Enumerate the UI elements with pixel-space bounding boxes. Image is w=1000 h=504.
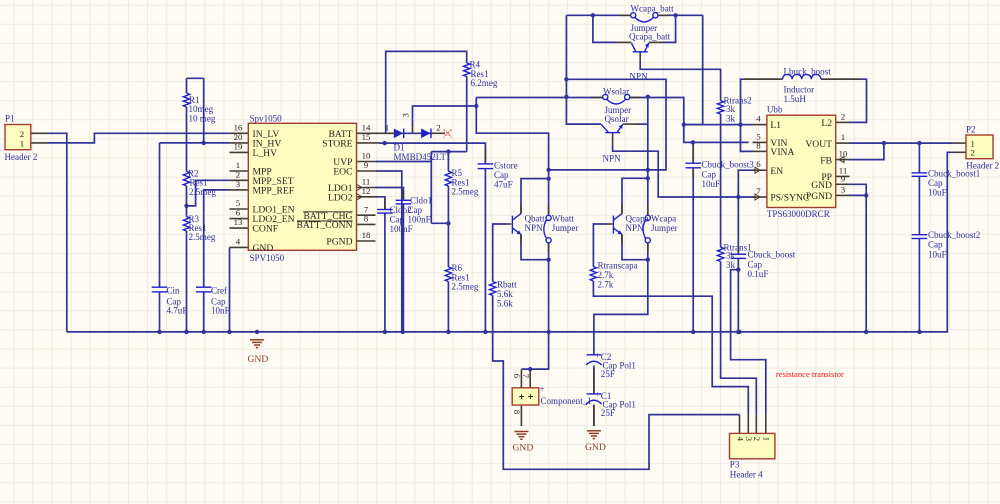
svg-text:2.7k: 2.7k [598, 279, 614, 289]
svg-text:L_HV: L_HV [253, 148, 278, 159]
capacitor Cbuck_boost [731, 253, 747, 255]
wire inductor to L2 [821, 79, 867, 122]
svg-text:2.7k: 2.7k [598, 270, 614, 280]
wire R4 bottom leg [466, 77, 468, 152]
wire node R5 bottom [431, 222, 448, 224]
pin stubs Wbatt jumper [548, 206, 550, 215]
svg-text:Cap: Cap [928, 240, 943, 250]
wire D1 internal [394, 132, 432, 134]
svg-text:10: 10 [362, 151, 371, 161]
capacitor Cbuck_boost1 [912, 172, 928, 174]
wire P1 pin1 jog up to IN_LV [48, 133, 230, 143]
svg-text:100nF: 100nF [390, 224, 413, 234]
svg-text:10 meg: 10 meg [189, 113, 216, 123]
svg-text:2.5meg: 2.5meg [452, 187, 479, 197]
transistor Q2 Qcapa NPN [612, 216, 614, 234]
resistor R1 [183, 93, 189, 107]
svg-text:Qsolar: Qsolar [605, 114, 629, 124]
capacitor C2 Cap Pol1 [587, 354, 602, 356]
pin stub STORE [357, 142, 380, 144]
wire Wsolar row right to VIN drop [630, 98, 749, 143]
ground GND main rail [250, 340, 264, 348]
svg-text:+: + [540, 384, 545, 394]
svg-text:GND: GND [248, 354, 269, 365]
input glyph EN [755, 167, 760, 173]
svg-text:1: 1 [20, 139, 24, 149]
svg-text:8: 8 [512, 410, 522, 415]
svg-text:10nF: 10nF [211, 306, 230, 316]
svg-text:2: 2 [841, 111, 845, 121]
wire Cstore to rail [484, 169, 486, 332]
svg-text:Component_1: Component_1 [541, 396, 592, 406]
svg-text:Ubb: Ubb [767, 105, 783, 115]
resistor R2 [183, 171, 189, 186]
svg-text:Lbuck_boost: Lbuck_boost [784, 67, 832, 77]
svg-text:5: 5 [236, 198, 241, 208]
pin stub BATT with D1 anode lead [357, 132, 395, 134]
wire R6 legs to rail [447, 223, 449, 267]
svg-text:MPP_REF: MPP_REF [253, 186, 295, 197]
connector P2 [966, 135, 993, 159]
svg-text:2: 2 [752, 437, 762, 441]
svg-text:20: 20 [234, 132, 243, 142]
svg-text:Cbuck_boost3: Cbuck_boost3 [702, 160, 755, 170]
transistor Q4 Qcapa_batt NPN [633, 51, 648, 53]
svg-text:8: 8 [756, 140, 761, 150]
svg-text:Wcapa: Wcapa [651, 214, 676, 224]
wire Cbuck_boost1/2 column [918, 143, 920, 173]
wire L1 to inductor loop [741, 79, 783, 124]
wire R1 right leg to IN_HV [203, 78, 205, 143]
svg-text:Cap: Cap [494, 170, 509, 180]
svg-text:6: 6 [512, 374, 522, 379]
wire Cbuck_boost3 column [692, 142, 694, 163]
wire GND rail (bottom bus) [67, 152, 953, 332]
wire Wbatt bottom to emitter dot to rail [548, 243, 550, 260]
jumper Wsolar [603, 94, 608, 99]
svg-text:MMBD452LT1: MMBD452LT1 [394, 152, 451, 162]
resistor Rtranscapa [590, 267, 596, 281]
svg-text:L1: L1 [770, 120, 781, 131]
wire STORE row to Cstore [379, 143, 485, 164]
svg-text:10uF: 10uF [928, 188, 947, 198]
svg-text:NPN: NPN [630, 72, 649, 82]
pin stub Qcapa_batt base [639, 52, 641, 62]
svg-text:GND: GND [513, 443, 534, 454]
svg-text:4: 4 [236, 237, 241, 247]
svg-text:Jumper: Jumper [552, 223, 579, 233]
svg-text:6: 6 [756, 159, 761, 169]
svg-text:FB: FB [820, 155, 832, 166]
wire UVP to riser column [376, 161, 432, 163]
svg-text:Header 2: Header 2 [5, 152, 38, 162]
wire Qcapa collector loop [622, 178, 648, 213]
svg-text:9: 9 [841, 173, 846, 183]
svg-text:Wsolar: Wsolar [603, 87, 629, 97]
wire GND/PGND tie to rail [850, 184, 867, 332]
svg-text:VINA: VINA [770, 147, 794, 158]
svg-text:2: 2 [20, 129, 24, 139]
pin stub Qsolar emitter [623, 123, 638, 125]
svg-text:PGND: PGND [806, 191, 832, 202]
wire Rtranscapa to P3 pin3 staircase [593, 281, 748, 415]
svg-text:EOC: EOC [333, 167, 352, 178]
svg-text:Header 4: Header 4 [730, 469, 763, 479]
resistor Rbatt [490, 282, 496, 296]
lead Cldo1 top [402, 191, 404, 201]
wire Qbatt collector loop [521, 179, 549, 214]
svg-text:10uF: 10uF [702, 179, 721, 189]
svg-text:Qcapa_batt: Qcapa_batt [629, 32, 671, 42]
svg-text:6.2meg: 6.2meg [471, 78, 498, 88]
svg-text:0.1uF: 0.1uF [748, 269, 769, 279]
wire Qcapa_batt collector loop [593, 15, 617, 42]
wire LDO2 to Cldo2 to rail [376, 197, 385, 210]
wire FB to VOUT [850, 143, 884, 160]
transistor Q3 Qsolar NPN [605, 132, 620, 134]
svg-text:100nF: 100nF [408, 215, 431, 225]
svg-text:GND: GND [811, 180, 832, 191]
wire EN branch [738, 170, 754, 197]
wire D1 pin3 riser [413, 106, 477, 126]
svg-text:6: 6 [236, 208, 241, 218]
wire Rtrans2 to Rtrans1 column [720, 114, 722, 247]
resistor R3 [183, 217, 189, 231]
svg-text:Cbuck_boost: Cbuck_boost [748, 250, 796, 260]
svg-text:5.6k: 5.6k [497, 298, 513, 308]
wire Cin column (IN_HV to Cin to rail) [159, 143, 161, 287]
wire Qbatt emitter loop [521, 234, 549, 259]
svg-text:4: 4 [735, 437, 745, 442]
connector P3 [730, 433, 775, 458]
svg-text:Jumper: Jumper [631, 23, 658, 33]
wire C2 to C1 link [593, 366, 595, 394]
wire Rtrans1 to P3 pin2 staircase [721, 262, 757, 415]
svg-text:CONF: CONF [253, 224, 279, 235]
input glyph PS/SYNC [755, 194, 760, 200]
svg-text:+: + [595, 389, 600, 399]
capacitor Cin [152, 286, 168, 288]
resistor R5 [445, 171, 451, 186]
wire C1 to GND symbol [593, 405, 595, 426]
svg-text:Wbatt: Wbatt [552, 214, 575, 224]
lead Cbuck_boost3 [692, 145, 694, 163]
component Component_1 body [512, 388, 539, 405]
wire Wcapa column [647, 97, 649, 215]
jumper Wcapa_batt [631, 13, 636, 18]
svg-text:10uF: 10uF [928, 249, 947, 259]
svg-text:GND: GND [253, 243, 274, 254]
pin stub Qcapa_batt emitter [649, 41, 663, 43]
lead Cbuck_boost top [737, 246, 739, 254]
wire R1-R2-R3 column [186, 78, 188, 93]
svg-text:4: 4 [756, 114, 761, 124]
svg-text:Wcapa_batt: Wcapa_batt [631, 4, 675, 14]
svg-text:Spv1050: Spv1050 [250, 114, 283, 124]
svg-text:7: 7 [756, 186, 761, 196]
pin stub D1 cathode NC [432, 132, 445, 134]
svg-text:resistance transistor: resistance transistor [776, 369, 844, 379]
svg-text:13: 13 [234, 217, 243, 227]
resistor Rtrans2 [717, 101, 723, 114]
svg-text:Inductor: Inductor [784, 85, 815, 95]
no-ERC marker on D1 pin2 [444, 129, 452, 137]
wire rail to Component_1 pins [521, 332, 548, 369]
svg-text:47uF: 47uF [494, 180, 513, 190]
wire MPP_REF to Cref to rail [204, 190, 230, 287]
svg-text:P2: P2 [966, 125, 976, 135]
svg-text:16: 16 [234, 122, 243, 132]
resistor R6 [445, 267, 451, 282]
pin stubs Component_1 [520, 369, 522, 387]
svg-text:1: 1 [385, 123, 389, 133]
svg-text:Cldo1: Cldo1 [410, 196, 432, 206]
svg-text:NPN: NPN [626, 223, 645, 233]
svg-text:8: 8 [364, 214, 369, 224]
pin stubs P1 [31, 132, 48, 134]
svg-text:BATT_CONN: BATT_CONN [297, 220, 353, 231]
pin stubs Wcapa_batt jumper [619, 14, 631, 16]
input glyph FB [839, 157, 844, 163]
svg-text:GND: GND [585, 442, 606, 453]
svg-text:Cin: Cin [167, 285, 181, 295]
svg-text:2: 2 [236, 169, 240, 179]
svg-text:P3: P3 [730, 460, 740, 470]
capacitor Cbuck_boost2 [912, 234, 928, 236]
wire R1 loop top [187, 77, 204, 79]
svg-text:SPV1050: SPV1050 [250, 253, 285, 263]
capacitor Cldo1 [396, 199, 412, 201]
svg-text:+: + [595, 350, 600, 360]
ground GND C1 [587, 431, 601, 439]
svg-text:LDO2: LDO2 [328, 192, 353, 203]
wire Qbatt base to Rbatt [493, 224, 506, 282]
svg-text:25F: 25F [601, 369, 615, 379]
wire EN column to Cbuck_boost cap [737, 197, 739, 254]
svg-text:18: 18 [362, 230, 371, 240]
pin stubs SPV1050 left [230, 132, 249, 134]
wire Rbatt to P3 pin4 staircase [493, 295, 740, 469]
resistor R4 [464, 63, 470, 77]
inductor Lbuck_boost [783, 74, 821, 79]
wire Wsolar row left [476, 97, 602, 99]
svg-text:Rtranscapa: Rtranscapa [598, 260, 638, 270]
capacitor Cbuck_boost3 [685, 162, 701, 164]
svg-text:3k: 3k [726, 260, 736, 270]
svg-text:Cap: Cap [702, 169, 717, 179]
svg-text:VOUT: VOUT [805, 139, 832, 150]
capacitor Cstore [478, 163, 494, 165]
wire upper cross link (Qcapa_batt collector net) [549, 79, 666, 170]
wire P1 pin2 to GND rail (left drop) [48, 133, 67, 332]
ground GND Component_1 [514, 432, 528, 440]
lead Cstore top [484, 146, 486, 164]
svg-text:Cstore: Cstore [494, 160, 518, 170]
svg-text:P1: P1 [5, 114, 15, 124]
svg-text:Cap: Cap [928, 178, 943, 188]
IC U1 SPV1050 body [248, 123, 356, 250]
wire VOUT row to P2 [850, 142, 953, 144]
wire LDO1 to Cldo1 to rail [376, 188, 404, 201]
svg-text:Cap: Cap [748, 259, 763, 269]
pin stub Qcapa_batt collector [617, 41, 631, 43]
svg-text:PGND: PGND [326, 237, 352, 248]
capacitor Cref [196, 286, 212, 288]
wire Qcapa_batt base to Rtrans2 [640, 62, 720, 101]
wire Qsolar emitter link [638, 123, 648, 125]
svg-text:D1: D1 [394, 143, 405, 153]
wire IN_HV row [160, 142, 230, 144]
wire Qcapa base to Rtranscapa [593, 224, 607, 267]
wire Wcapa_batt row [566, 14, 630, 16]
output glyph LDO1 [357, 185, 362, 191]
lead C2-C1 link [593, 368, 595, 394]
svg-text:NPN: NPN [525, 223, 544, 233]
svg-text:2: 2 [971, 148, 975, 158]
svg-text:1: 1 [762, 437, 772, 441]
pin stubs Qbatt [520, 204, 522, 214]
pin stubs Lbuck_boost [744, 78, 783, 80]
wire node to Wcapa_batt right column [684, 15, 703, 124]
svg-text:NPN: NPN [603, 154, 622, 164]
wire Wcapa_batt left column to Qsolar collector [566, 15, 601, 124]
wire BATT riser over to R4 [386, 51, 467, 133]
wire Cbuck_boost cap to rail [737, 258, 739, 332]
wire L1 row [684, 124, 741, 126]
wire GND pin4 drop [229, 247, 231, 332]
svg-text:3: 3 [401, 113, 411, 118]
pin stubs P3 [739, 415, 741, 434]
svg-text:9: 9 [364, 160, 369, 170]
svg-text:2: 2 [436, 123, 440, 133]
wire Wcapa node down to C2 column [594, 260, 648, 355]
transistor Q1 Qbatt NPN [511, 216, 513, 234]
wire R5 legs [447, 152, 449, 172]
wire branch to P3 pin1 staircase [731, 270, 766, 415]
svg-text:L2: L2 [821, 118, 832, 129]
svg-text:5.6k: 5.6k [497, 289, 513, 299]
svg-text:Cbuck_boost2: Cbuck_boost2 [928, 230, 981, 240]
svg-text:Cldo2: Cldo2 [390, 205, 413, 215]
wire Qcapa emitter loop [622, 234, 648, 259]
svg-text:PS/SYNC: PS/SYNC [770, 193, 809, 204]
svg-text:3k: 3k [726, 113, 736, 123]
lead Cldo2 top [384, 199, 386, 210]
svg-text:Cref: Cref [211, 285, 228, 295]
jumper Wcapa [645, 215, 650, 220]
diode D1 first junction [394, 129, 403, 139]
wire PGND link [850, 194, 867, 196]
svg-text:1: 1 [841, 132, 845, 142]
svg-text:12: 12 [362, 186, 371, 196]
svg-text:7: 7 [521, 374, 531, 379]
pin stubs P2 [953, 142, 967, 144]
svg-text:2.5meg: 2.5meg [189, 232, 216, 242]
pin stub Qsolar base [612, 133, 614, 146]
lead C1 bottom [593, 405, 595, 426]
diode D1 second junction [421, 129, 430, 139]
svg-text:Cap: Cap [390, 215, 405, 225]
svg-text:Cbuck_boost1: Cbuck_boost1 [928, 168, 980, 178]
resistor Rtrans1 [717, 247, 723, 261]
wire VINA riser [741, 125, 753, 152]
wire Wsolar left riser from D1 node [476, 98, 548, 216]
IC Ubb TPS63000DRCR body [767, 115, 836, 207]
svg-text:1.5uH: 1.5uH [784, 94, 807, 104]
junction dots [202, 141, 206, 145]
svg-text:19: 19 [234, 142, 243, 152]
svg-text:EN: EN [770, 166, 783, 177]
wire node R5 top [431, 151, 466, 153]
crystal marks Component_1 [519, 394, 533, 399]
svg-text:4.7uF: 4.7uF [167, 306, 188, 316]
capacitor C1 Cap Pol1 [587, 393, 602, 395]
svg-text:TPS63000DRCR: TPS63000DRCR [767, 209, 831, 219]
svg-text:Qbatt: Qbatt [525, 214, 546, 224]
svg-text:3: 3 [841, 184, 846, 194]
svg-text:3: 3 [236, 179, 241, 189]
wire EOC drop to rail [376, 171, 402, 332]
wire Qsolar base to PS/SYNC [613, 146, 755, 197]
pin stubs Wcapa jumper [647, 206, 649, 215]
wire MPP_SET tap jog [187, 180, 230, 206]
svg-text:2.5meg: 2.5meg [189, 187, 216, 197]
svg-text:2.5meg: 2.5meg [452, 282, 479, 292]
svg-text:Jumper: Jumper [605, 105, 632, 115]
jumper Wbatt [546, 215, 551, 220]
pin stub D1 pin3 [412, 125, 414, 134]
svg-text:Jumper: Jumper [651, 223, 678, 233]
output glyph LDO2 [357, 194, 362, 200]
pin stubs Qcapa [621, 204, 623, 214]
pin stubs TPS63000 left [753, 124, 767, 126]
wire Qcapa_batt emitter loop [663, 15, 676, 42]
svg-text:15: 15 [362, 132, 371, 142]
pin stubs SPV1050 right [357, 161, 376, 163]
svg-text:14: 14 [362, 122, 371, 132]
connector P1 [5, 125, 31, 150]
wire Wcapa bottom to emitter dot [647, 243, 649, 260]
svg-text:STORE: STORE [322, 139, 352, 150]
capacitor Cldo2 [377, 209, 393, 211]
svg-text:Rbatt: Rbatt [497, 279, 517, 289]
pin stubs TPS63000 right [836, 121, 850, 123]
pin stubs Wsolar jumper [591, 97, 603, 99]
svg-text:25F: 25F [601, 408, 615, 418]
